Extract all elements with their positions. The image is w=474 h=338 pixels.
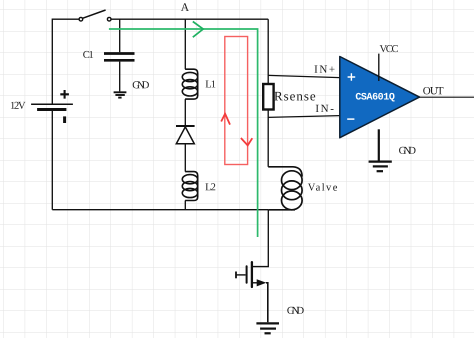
svg-text:12V: 12V <box>10 101 26 112</box>
wire node A down to L1 <box>184 19 186 69</box>
inductor L2 <box>182 172 197 201</box>
resistor Rsense <box>263 84 273 110</box>
wire C1 to ground <box>119 62 121 92</box>
wire mosfet source to ground <box>266 283 268 323</box>
svg-text:C1: C1 <box>83 50 94 61</box>
battery B1 12V <box>31 90 73 123</box>
switch S1 <box>79 10 111 21</box>
wire IN+ <box>268 75 340 77</box>
svg-text:IN-: IN- <box>315 103 334 115</box>
current loop (red) <box>225 37 248 165</box>
svg-text:L2: L2 <box>205 182 216 193</box>
wire IN- <box>268 116 340 118</box>
wire battery+ to switch <box>52 19 79 104</box>
red up arrow <box>221 114 230 125</box>
wire switch to node A to corner <box>111 18 268 20</box>
op-amp U1 CSA601Q <box>340 57 420 138</box>
pin - <box>347 118 354 120</box>
wire battery- down to bottom rail <box>51 111 53 210</box>
ground (op-amp) <box>369 162 392 172</box>
svg-text:GND: GND <box>287 306 305 317</box>
inductor Valve <box>268 167 302 177</box>
svg-text:L1: L1 <box>205 79 216 90</box>
wire L1 to diode <box>184 99 186 126</box>
svg-text:GND: GND <box>399 146 417 157</box>
svg-text:Valve: Valve <box>308 183 338 194</box>
diode D1 <box>176 125 195 127</box>
green arrow <box>193 22 203 38</box>
red down arrow <box>241 138 252 145</box>
capacitor C1 <box>104 54 135 61</box>
wire op-amp to ground <box>378 129 380 161</box>
svg-text:GND: GND <box>132 80 150 91</box>
wire diode to L2 <box>184 144 186 172</box>
pin + <box>348 73 356 81</box>
bottom rail wire <box>52 209 268 211</box>
wire top tap to C1 <box>119 19 121 52</box>
ground (C1) <box>114 92 127 97</box>
svg-text:IN+: IN+ <box>314 64 335 76</box>
svg-text:A: A <box>181 2 190 14</box>
wire valve junction down to mosfet drain <box>253 210 268 267</box>
wire L2 to bottom rail <box>184 201 186 210</box>
ground (mosfet) <box>256 323 279 333</box>
svg-text:Rsense: Rsense <box>274 88 316 103</box>
wire current path (green) <box>109 29 258 237</box>
wire OUT <box>420 96 474 98</box>
wire Rsense to valve <box>267 110 269 167</box>
transistor Q1 (NMOS) <box>236 262 258 287</box>
inductor L1 <box>182 69 197 99</box>
wire top right corner down to Rsense <box>267 19 269 84</box>
svg-text:CSA601Q: CSA601Q <box>355 92 395 103</box>
wire VCC <box>378 54 380 81</box>
svg-text:OUT: OUT <box>423 85 444 97</box>
svg-text:VCC: VCC <box>379 44 398 55</box>
